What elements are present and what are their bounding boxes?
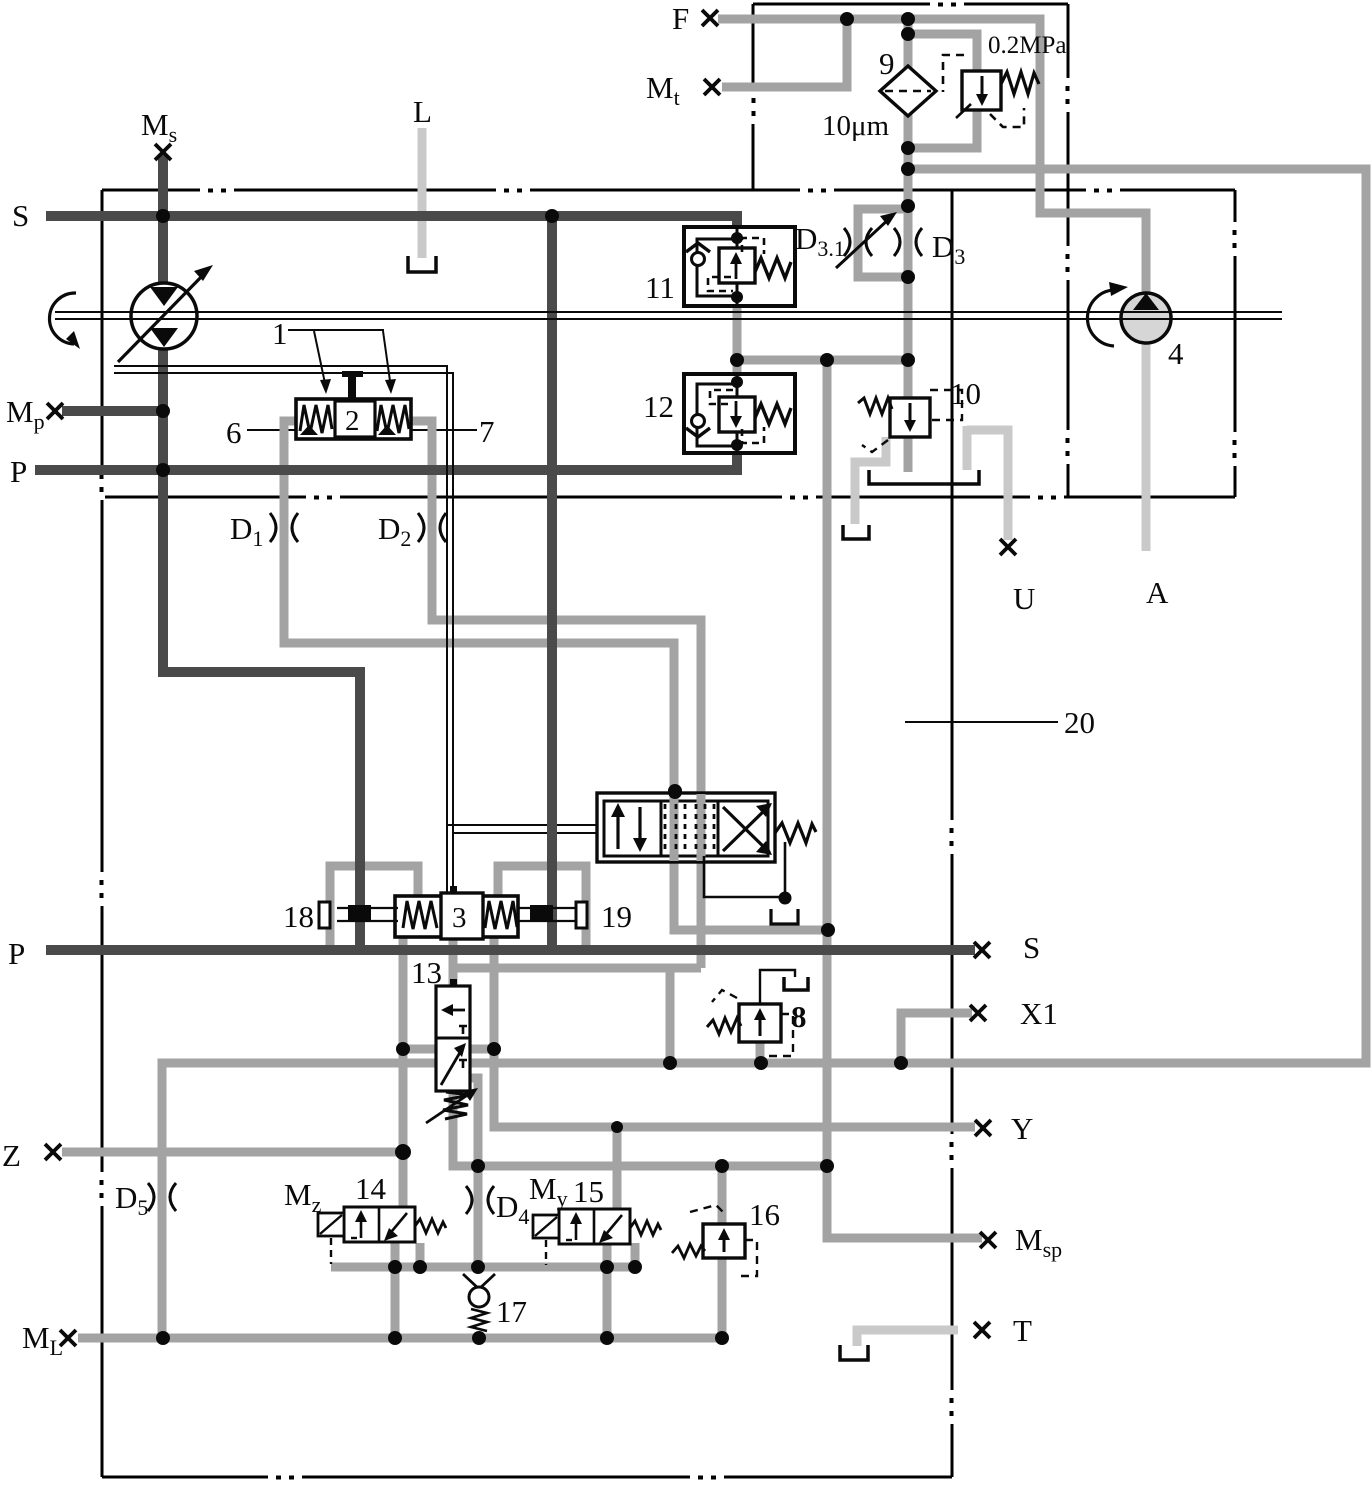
svg-text:F: F <box>672 1 689 36</box>
svg-text:11: 11 <box>645 270 675 305</box>
svg-text:Z: Z <box>2 1138 21 1173</box>
svg-text:L: L <box>413 94 432 129</box>
svg-text:P: P <box>8 936 25 971</box>
svg-text:13: 13 <box>411 955 442 990</box>
svg-text:X1: X1 <box>1020 996 1058 1031</box>
svg-text:S: S <box>1023 930 1040 965</box>
svg-text:U: U <box>1013 581 1035 616</box>
svg-text:4: 4 <box>1168 336 1184 371</box>
svg-text:10: 10 <box>950 376 981 411</box>
svg-text:6: 6 <box>226 415 242 450</box>
svg-text:Y: Y <box>1011 1111 1033 1146</box>
svg-text:P: P <box>10 454 27 489</box>
svg-text:9: 9 <box>879 46 895 81</box>
svg-text:17: 17 <box>496 1294 527 1329</box>
svg-text:1: 1 <box>272 316 288 351</box>
svg-text:2: 2 <box>345 405 360 437</box>
svg-text:S: S <box>12 198 29 233</box>
svg-text:20: 20 <box>1064 705 1095 740</box>
svg-text:8: 8 <box>791 999 807 1034</box>
svg-text:15: 15 <box>573 1174 604 1209</box>
svg-text:3: 3 <box>452 902 467 934</box>
svg-text:7: 7 <box>479 414 495 449</box>
svg-text:T: T <box>1013 1313 1032 1348</box>
svg-text:19: 19 <box>601 899 632 934</box>
svg-text:A: A <box>1146 575 1169 610</box>
svg-text:0.2MPa: 0.2MPa <box>988 32 1066 59</box>
svg-text:18: 18 <box>283 899 314 934</box>
svg-text:16: 16 <box>749 1197 780 1232</box>
svg-text:12: 12 <box>643 389 674 424</box>
svg-text:14: 14 <box>355 1171 387 1206</box>
svg-text:10μm: 10μm <box>822 110 890 142</box>
